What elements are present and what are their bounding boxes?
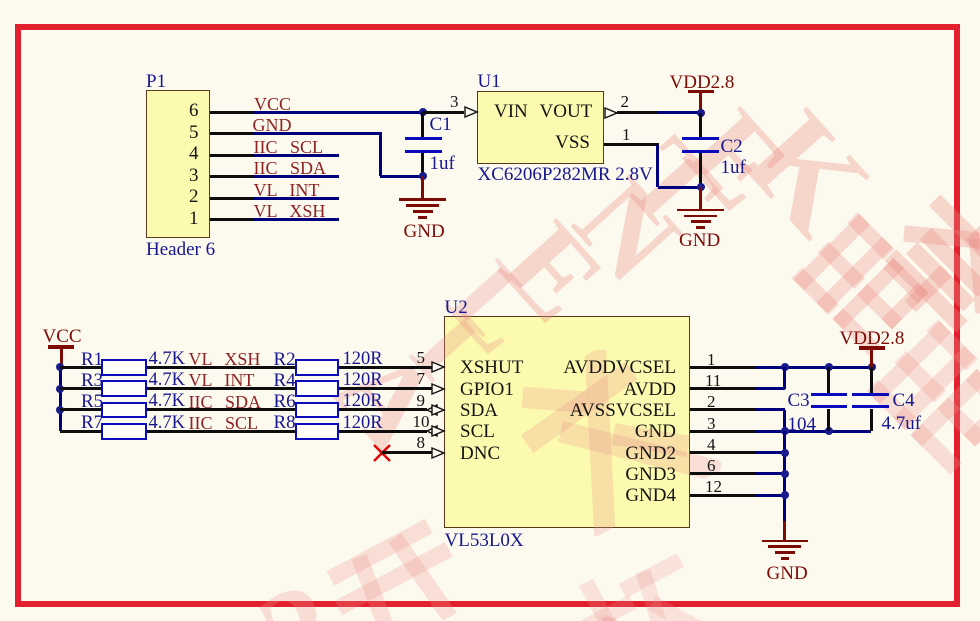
sensor U2 body: [0, 0, 980, 1]
junction node GND run at pin3: [0, 0, 980, 1]
pin number 3 U2 right: [0, 0, 980, 1]
pin number 2 U2 right: [0, 0, 980, 1]
pin number 12 U2 right: [0, 0, 980, 1]
value 4.7K of R7: [0, 0, 980, 1]
net label GND: [0, 0, 980, 1]
U2 pin name DNC: [0, 0, 980, 1]
wire between R5 and R6: [0, 0, 980, 1]
ground symbol below C1: [0, 0, 980, 1]
junction node VSS/C2 bottom: [0, 0, 980, 1]
wire IIC_SCL stub from P1 pin 4: [0, 0, 980, 1]
designator R3: [0, 0, 980, 1]
designator C3: [0, 0, 980, 1]
power text VDD2.8 at U1: [0, 0, 980, 1]
net label VL_XSH: [0, 0, 980, 1]
designator C2: [0, 0, 980, 1]
net label VCC: [0, 0, 980, 1]
pin number 1 U2 right: [0, 0, 980, 1]
U2 pin name GND3: [0, 0, 980, 1]
resistor R4 120R: [0, 0, 980, 1]
U2 pin name GPIO1: [0, 0, 980, 1]
wire U2 pin11 AVDD up to rail: [0, 0, 980, 1]
pin number 5: [0, 0, 980, 1]
wire and pin 3 into U1 VIN with arrow: [0, 0, 980, 1]
power symbol VDD2.8 at U1: [0, 0, 980, 1]
resistor R8 120R: [0, 0, 980, 1]
wire U2 pin2 AVSSVCSEL down to GND run: [0, 0, 980, 1]
designator R8: [0, 0, 980, 1]
watermark: [0, 0, 980, 7]
resistor R3 4.7K: [0, 0, 980, 1]
value 120R of R2: [0, 0, 980, 1]
wire GND bus vertical with pins 4 6 12: [0, 0, 980, 1]
designator U1: [0, 0, 980, 1]
junction node VOUT/C2: [0, 0, 980, 1]
junction node C1 top: [0, 0, 980, 1]
designator R4: [0, 0, 980, 1]
resistor R5 4.7K: [0, 0, 980, 1]
capacitor C2: [0, 0, 980, 1]
net label VL_INT: [0, 0, 980, 1]
value XC6206P282MR 2.8V: [0, 0, 980, 1]
wire R8 to U2 SCL pin 10: [0, 0, 980, 1]
resistor R2 120R: [0, 0, 980, 1]
net label VL_INT: [0, 0, 980, 1]
U2 pin name AVDD: [0, 0, 980, 1]
designator R1: [0, 0, 980, 1]
U2 pin name GND4: [0, 0, 980, 1]
no connect X on DNC: [0, 0, 980, 1]
designator R7: [0, 0, 980, 1]
junction node C3 bottom: [0, 0, 980, 1]
U1 pin name VSS: [0, 0, 980, 1]
resistor R1 4.7K: [0, 0, 980, 1]
value 120R of R8: [0, 0, 980, 1]
U2 pin name XSHUT: [0, 0, 980, 1]
value VL53L0X: [0, 0, 980, 1]
junction node rail branch pin11: [0, 0, 980, 1]
U2 pin name GND: [0, 0, 980, 1]
capacitor C4 4.7uf: [0, 0, 980, 1]
designator P1: [0, 0, 980, 1]
designator U2: [0, 0, 980, 1]
value Header 6: [0, 0, 980, 1]
U2 pin name AVSSVCSEL: [0, 0, 980, 1]
U2 pin name SCL: [0, 0, 980, 1]
value 120R of R6: [0, 0, 980, 1]
net label IIC_SCL: [0, 0, 980, 1]
wire VL_INT stub from P1 pin 2: [0, 0, 980, 1]
pin number 11 U2 right: [0, 0, 980, 1]
wire DNC pin 8: [0, 0, 980, 1]
capacitor C1: [0, 0, 980, 1]
wire between R7 and R8: [0, 0, 980, 1]
value 104: [0, 0, 980, 1]
wire R2 to U2 XSHUT pin 5: [0, 0, 980, 1]
pin number 1 U1 VSS: [0, 0, 980, 1]
designator C1: [0, 0, 980, 1]
ground symbol below C2: [0, 0, 980, 1]
power symbol VCC: [0, 0, 980, 1]
power symbol VDD2.8 at U2: [0, 0, 980, 1]
wire VL_XSH stub from P1 pin 1: [0, 0, 980, 1]
power text GND bottom: [0, 0, 980, 1]
value 4.7K of R3: [0, 0, 980, 1]
wire U2 pin1 AVDDVCSEL to VDD2.8 rail: [0, 0, 980, 1]
U2 pin name GND2: [0, 0, 980, 1]
net label IIC_SDA: [0, 0, 980, 1]
net label IIC_SDA: [0, 0, 980, 1]
wire between R1 and R2: [0, 0, 980, 1]
wire R6 to U2 SDA pin 9: [0, 0, 980, 1]
wire R4 to U2 GPIO1 pin 7: [0, 0, 980, 1]
U2 pin name AVDDVCSEL: [0, 0, 980, 1]
power text VCC: [0, 0, 980, 1]
value 1uf C2: [0, 0, 980, 1]
value 4.7K of R1: [0, 0, 980, 1]
value 4.7K of R5: [0, 0, 980, 1]
power text VDD2.8 at U2: [0, 0, 980, 1]
designator R5: [0, 0, 980, 1]
wire VCC bus vertical to resistor rows: [0, 0, 980, 1]
pin number 9: [0, 0, 980, 1]
designator R6: [0, 0, 980, 1]
wire VCC net from P1 pin 6 to C1/U1: [0, 0, 980, 1]
net label VL_XSH: [0, 0, 980, 1]
pin number 2 U1 VOUT: [0, 0, 980, 1]
power text GND below C1: [0, 0, 980, 1]
designator C4: [0, 0, 980, 1]
junction node C4 top VDD stem: [0, 0, 980, 1]
connector P1 Header 6 body: [0, 0, 980, 1]
sheet border frame: [0, 0, 980, 1]
pin number 8: [0, 0, 980, 1]
pin number 6 U2 right: [0, 0, 980, 1]
wire U1 VSS pin 1 to C2 bottom: [0, 0, 980, 1]
designator R2: [0, 0, 980, 1]
U1 pin name VOUT: [0, 0, 980, 1]
value 1uf C1: [0, 0, 980, 1]
wire U1 VOUT pin 2 to VDD2.8 node: [0, 0, 980, 1]
pin number 10: [0, 0, 980, 1]
ground symbol bottom: [0, 0, 980, 1]
junction node C3 top: [0, 0, 980, 1]
wire GND net from P1 pin 5 down to C1 bottom: [0, 0, 980, 1]
U1 pin name VIN: [0, 0, 980, 1]
wire between R3 and R4: [0, 0, 980, 1]
U2 pin name SDA: [0, 0, 980, 1]
resistor R6 120R: [0, 0, 980, 1]
wire IIC_SDA stub from P1 pin 3: [0, 0, 980, 1]
pin number 3 U1 VIN: [0, 0, 980, 1]
value 4.7uf: [0, 0, 980, 1]
wire U2 pin3 GND and horizontal GND run: [0, 0, 980, 1]
net label IIC_SCL: [0, 0, 980, 1]
pin number 4 U2 right: [0, 0, 980, 1]
junction node C1 bottom: [0, 0, 980, 1]
P1 pin numbers 6 5 4 3 2 1: [0, 0, 980, 1]
capacitor C3 104: [0, 0, 980, 1]
value 120R of R4: [0, 0, 980, 1]
pin number 7: [0, 0, 980, 1]
resistor R7 4.7K: [0, 0, 980, 1]
power text GND below C2: [0, 0, 980, 1]
regulator U1 body: [0, 0, 980, 1]
